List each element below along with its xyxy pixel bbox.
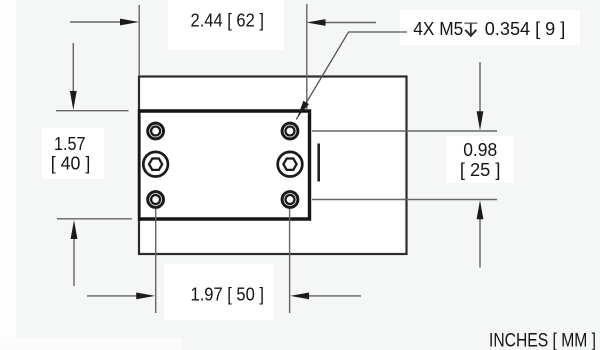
svg-text:INCHES [ MM ]: INCHES [ MM ] <box>489 331 596 350</box>
svg-text:[ 25 ]: [ 25 ] <box>460 159 501 180</box>
svg-text:0.354 [ 9 ]: 0.354 [ 9 ] <box>485 18 566 39</box>
svg-text:1.97 [ 50 ]: 1.97 [ 50 ] <box>191 284 265 305</box>
svg-text:[ 40 ]: [ 40 ] <box>51 153 91 174</box>
svg-text:2.44 [ 62 ]: 2.44 [ 62 ] <box>191 9 265 30</box>
svg-text:4X M5: 4X M5 <box>413 18 463 39</box>
svg-text:0.98: 0.98 <box>463 139 497 160</box>
svg-text:1.57: 1.57 <box>54 133 86 154</box>
